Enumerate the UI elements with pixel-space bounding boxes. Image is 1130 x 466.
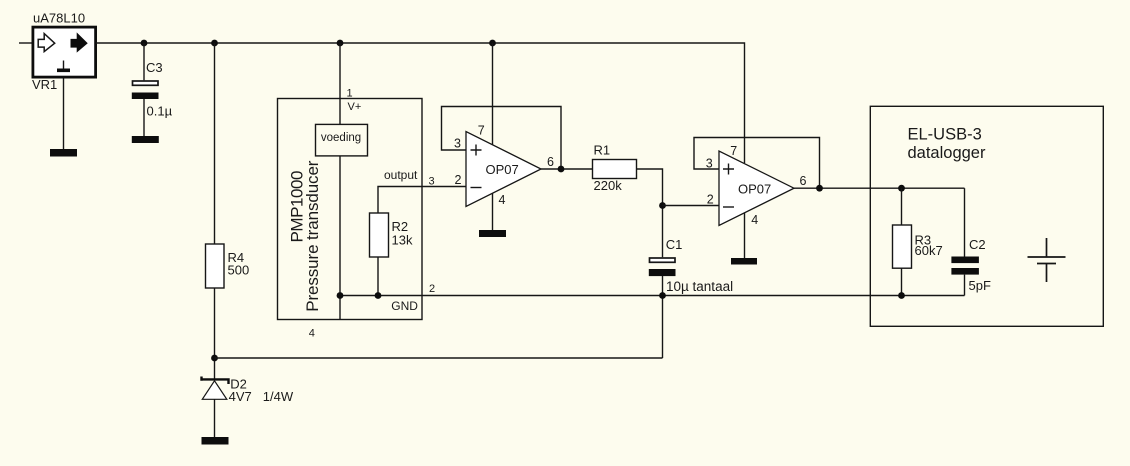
op-amp U1 OP07 triangle (466, 132, 541, 207)
capacitor C2 (964, 188, 966, 256)
svg-text:13k: 13k (392, 233, 413, 248)
svg-text:output: output (384, 168, 418, 182)
VR1 output solid arrow (71, 34, 87, 52)
svg-text:500: 500 (228, 263, 250, 278)
node junction R3 top (898, 185, 905, 192)
svg-text:10µ tantaal: 10µ tantaal (666, 279, 733, 294)
wire U2 output to datalogger (794, 187, 965, 189)
node junction C1/gnd rail (659, 292, 666, 299)
capacitor C1 (650, 258, 676, 262)
svg-text:4: 4 (751, 213, 758, 227)
svg-text:VR1: VR1 (32, 77, 57, 92)
wire rail to R4 (214, 43, 216, 244)
op-amp U2 OP07 triangle (719, 151, 794, 226)
svg-text:1/4W: 1/4W (263, 389, 294, 404)
svg-text:4V7: 4V7 (229, 389, 252, 404)
svg-text:C1: C1 (666, 237, 683, 252)
VR1 ground tab symbol (63, 61, 65, 69)
svg-text:0.1µ: 0.1µ (147, 104, 173, 119)
resistor R2 (370, 213, 389, 257)
svg-text:6: 6 (547, 155, 554, 169)
svg-text:3: 3 (429, 176, 435, 188)
wire U1 output (541, 168, 593, 170)
svg-text:5pF: 5pF (969, 278, 991, 293)
node junction R4/D2/gnd-return (211, 355, 218, 362)
U2 minus sign (723, 206, 734, 208)
U1 minus sign (471, 187, 482, 189)
U1 plus sign (471, 145, 482, 156)
ground bar under VR1 (50, 149, 77, 157)
wire U2 feedback loop (694, 138, 820, 189)
svg-text:3: 3 (454, 137, 461, 151)
PMP1000 pressure transducer box (278, 99, 423, 320)
battery cell symbol (1028, 238, 1066, 282)
zener diode D2 (202, 377, 229, 385)
svg-text:7: 7 (478, 124, 485, 138)
capacitor C3 (143, 43, 145, 80)
svg-text:4: 4 (499, 193, 506, 207)
wire R4 to node (214, 288, 216, 379)
svg-text:220k: 220k (594, 178, 623, 193)
resistor R1 (593, 160, 637, 179)
svg-text:2: 2 (429, 283, 435, 295)
wire U2 pin4 to ground (744, 213, 746, 258)
svg-text:3: 3 (706, 157, 713, 171)
svg-text:V+: V+ (348, 101, 362, 113)
node junction R2/gnd (375, 292, 382, 299)
svg-text:EL-USB-3: EL-USB-3 (908, 126, 982, 144)
svg-text:7: 7 (730, 144, 737, 158)
svg-text:2: 2 (455, 173, 462, 187)
node junction opamp1 pin7/rail (489, 40, 496, 47)
svg-text:OP07: OP07 (486, 162, 519, 177)
U2 plus sign (723, 164, 734, 175)
wire R1 to node (637, 169, 663, 257)
svg-text:datalogger: datalogger (908, 144, 986, 162)
wire voeding to gnd node (339, 156, 341, 320)
node junction U1 output/feedback (558, 166, 565, 173)
svg-text:Pressure transducer: Pressure transducer (303, 160, 322, 312)
svg-text:1: 1 (347, 88, 353, 100)
node junction R1/C1/U2 input (659, 202, 666, 209)
wire output pin3 (378, 187, 466, 214)
resistor R3 (901, 188, 903, 225)
ground bar under C3 (132, 136, 159, 143)
svg-text:4: 4 (309, 327, 315, 339)
wire U1 pin4 to ground (492, 194, 494, 231)
wire R2 to gnd rail (377, 257, 379, 296)
wire gnd return to D2 node (215, 357, 663, 359)
voeding block (316, 124, 368, 155)
svg-text:C3: C3 (146, 60, 163, 75)
voltage regulator VR1 body (33, 27, 96, 77)
wire U1 feedback loop (442, 107, 562, 170)
EL-USB-3 datalogger box (870, 106, 1103, 326)
node junction R3 bottom/gnd (898, 292, 905, 299)
wire input stub to VR1 (19, 42, 32, 44)
svg-text:uA78L10: uA78L10 (33, 10, 85, 25)
wire top V+ rail (96, 43, 745, 163)
wire node to U2 minus input (663, 205, 720, 207)
wire pin1 V+ (339, 43, 341, 124)
node junction R4/rail (211, 40, 218, 47)
node junction U2 output/feedback (816, 185, 823, 192)
node junction C3/rail (141, 40, 148, 47)
svg-text:6: 6 (800, 174, 807, 188)
svg-text:OP07: OP07 (738, 182, 771, 197)
wire U1 supply pin7 (492, 43, 494, 145)
wire D2 anode to ground (214, 399, 216, 437)
ground bar under D2 (202, 437, 229, 445)
node junction PMP pin1/rail (337, 40, 344, 47)
wire GND rail (340, 295, 965, 297)
svg-text:voeding: voeding (321, 132, 361, 144)
ground bar under U2 (731, 258, 757, 265)
svg-text:GND: GND (391, 299, 418, 313)
svg-text:C2: C2 (969, 237, 986, 252)
svg-text:R1: R1 (594, 143, 611, 158)
svg-text:60k7: 60k7 (915, 243, 943, 258)
node junction voeding/gnd (337, 292, 344, 299)
wire VR1 ground pin (63, 79, 65, 150)
VR1 input open arrow (38, 34, 55, 52)
svg-text:2: 2 (707, 193, 714, 207)
resistor R4 (206, 244, 225, 288)
ground bar under U1 (479, 230, 506, 237)
